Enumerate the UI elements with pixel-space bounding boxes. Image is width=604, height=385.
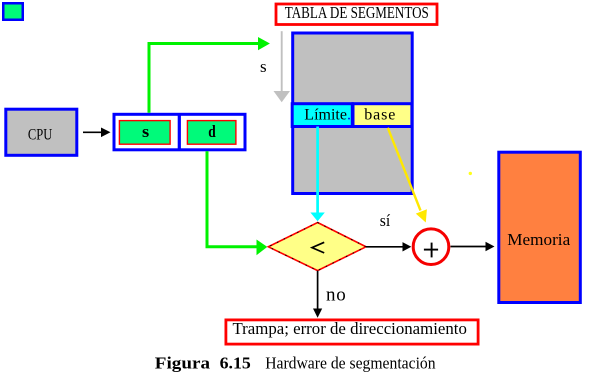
arrow CPU to register <box>83 128 111 138</box>
CPU box <box>6 109 77 155</box>
arrow adder to memory <box>451 242 495 251</box>
arrow diamond to trap <box>313 271 322 318</box>
limite cell <box>292 104 352 127</box>
svg-text:TABLA DE SEGMENTOS: TABLA DE SEGMENTOS <box>285 3 429 22</box>
svg-text:s: s <box>260 57 267 76</box>
svg-text:Figura: Figura <box>155 353 211 372</box>
gray index arrow <box>274 31 291 102</box>
register box s|d <box>114 114 245 151</box>
trap box <box>226 319 478 344</box>
svg-text:d: d <box>208 122 216 141</box>
arrow diamond to adder <box>366 242 411 251</box>
svg-text:Trampa; error de direccionamie: Trampa; error de direccionamiento <box>233 319 467 338</box>
svg-text:6.15: 6.15 <box>220 353 251 372</box>
adder circle <box>413 229 449 265</box>
svg-text:s: s <box>142 122 150 141</box>
stray yellow dot <box>469 172 472 175</box>
caption <box>155 353 436 372</box>
label si <box>380 211 391 230</box>
svg-text:sí: sí <box>380 211 391 230</box>
memory box <box>499 152 581 302</box>
s cell <box>119 121 170 145</box>
comparator diamond <box>268 223 366 271</box>
svg-text:Hardware de segmentación: Hardware de segmentación <box>265 353 436 372</box>
cyan wire limite to comparator <box>310 127 324 222</box>
title box TABLA DE SEGMENTOS <box>276 3 437 24</box>
label s <box>260 57 267 76</box>
yellow wire base to adder <box>388 128 427 223</box>
svg-text:CPU: CPU <box>28 126 53 143</box>
svg-text:base: base <box>364 106 396 123</box>
svg-text:Memoria: Memoria <box>507 230 570 249</box>
svg-text:Límite.: Límite. <box>304 106 351 123</box>
d cell <box>187 121 236 145</box>
stray corner square <box>3 3 23 20</box>
svg-text:no: no <box>326 285 347 306</box>
base cell <box>353 104 412 127</box>
green wire d to comparator <box>207 151 267 255</box>
segment table <box>293 33 413 194</box>
label no <box>326 285 347 306</box>
green wire s to table <box>149 37 270 113</box>
